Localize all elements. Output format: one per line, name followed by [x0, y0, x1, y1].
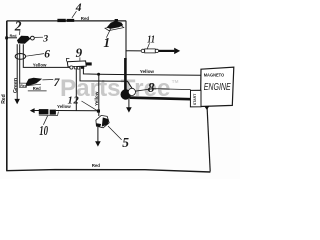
wire bottom (Red)	[6, 170, 210, 172]
junction dot	[97, 73, 100, 76]
wire yellow from switch to engine	[83, 68, 201, 75]
label Red (left of item 7)	[20, 83, 27, 88]
svg-text:ENGINE: ENGINE	[204, 82, 232, 93]
wire right vertical	[207, 108, 210, 172]
wire from switch down to bottom yellow wire	[75, 69, 77, 111]
svg-text:3: 3	[42, 33, 48, 44]
svg-text:Green: Green	[13, 78, 19, 93]
svg-text:START: START	[193, 93, 197, 105]
svg-text:6: 6	[44, 49, 50, 61]
diode D8 (item 8)	[121, 88, 136, 99]
terminal ring (item 3)	[31, 36, 35, 40]
label 6	[26, 49, 50, 61]
ground arrow (below item 5)	[95, 127, 101, 147]
svg-text:Yellow: Yellow	[140, 69, 155, 74]
svg-text:8: 8	[148, 80, 155, 95]
svg-text:9: 9	[76, 45, 83, 60]
svg-text:Red: Red	[20, 84, 27, 88]
svg-text:5: 5	[122, 135, 129, 150]
svg-text:Red: Red	[1, 94, 7, 103]
wire green vertical	[16, 44, 18, 99]
wire left border (Red)	[6, 21, 8, 171]
svg-text:Red: Red	[81, 16, 90, 21]
svg-text:11: 11	[147, 34, 155, 46]
svg-text:Yellow: Yellow	[94, 91, 99, 106]
label 12	[68, 95, 97, 110]
junction triangle (engine bottom)	[204, 106, 209, 110]
svg-text:TM: TM	[172, 79, 179, 84]
svg-text:Red: Red	[10, 34, 17, 38]
wire thick black to engine	[130, 98, 191, 100]
svg-text:2: 2	[14, 18, 22, 33]
label 4	[72, 2, 82, 18]
connector ring (item 6)	[15, 54, 25, 60]
label 7	[42, 77, 60, 89]
label 10	[39, 116, 48, 138]
label 2	[14, 18, 22, 35]
label 11	[147, 34, 155, 50]
label 5	[108, 126, 129, 150]
svg-text:Red: Red	[92, 163, 101, 168]
wire top (Red)	[7, 20, 126, 22]
watermark PartsTree	[60, 75, 179, 102]
engine box	[201, 67, 234, 106]
wire center vertical (thick part)	[124, 58, 127, 91]
wire center vertical (thin part)	[125, 21, 127, 60]
label 9	[76, 45, 83, 61]
svg-text:MAGNETO: MAGNETO	[204, 72, 225, 78]
connector C2 (item 2) at top-left with stub from border	[5, 36, 30, 44]
wire diode 8 to start terminal	[135, 89, 191, 92]
svg-text:10: 10	[39, 123, 48, 138]
wire yellow bottom horizontal	[56, 110, 97, 112]
wire from switch to diode 8	[80, 69, 132, 89]
wire fuse branch	[126, 50, 142, 52]
wire yellow vertical (to switch)	[23, 44, 70, 67]
svg-text:12: 12	[68, 95, 80, 106]
label Red (under item 7, with underline)	[28, 86, 47, 91]
fuse holder F11 (item 11)	[141, 48, 180, 54]
connector C10 (item 10) with arrow	[30, 108, 59, 115]
switch S1 (item 1, key switch at top)	[105, 19, 124, 31]
junction square (item 12 node)	[97, 110, 100, 113]
label 1	[103, 29, 110, 50]
svg-text:Red: Red	[33, 86, 41, 91]
svg-text:Yellow: Yellow	[33, 62, 47, 67]
ground arrow (green wire)	[14, 99, 20, 104]
terminal ring under switch	[70, 66, 73, 69]
start box	[190, 90, 201, 107]
wire yellow vertical (junction to item 5)	[98, 74, 100, 116]
connector C7 (item 7)	[20, 78, 43, 86]
ignition switch S9 (item 9)	[66, 59, 91, 70]
label 3	[35, 33, 48, 44]
spark module (item 5)	[96, 115, 109, 127]
ground arrow (below item 8)	[126, 99, 132, 113]
wire red vertical (to item 7)	[19, 44, 21, 83]
fuse F4 (item 4) on top wire	[57, 19, 74, 22]
